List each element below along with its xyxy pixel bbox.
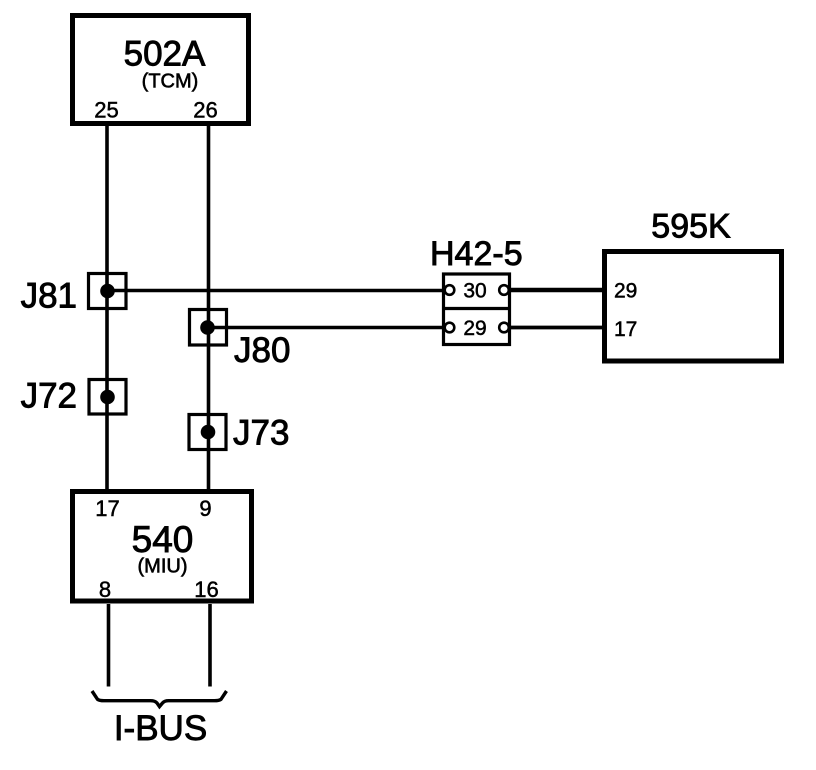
connector 502A (TCM) — [73, 16, 249, 124]
svg-text:29: 29 — [463, 317, 486, 340]
svg-text:502A: 502A — [124, 35, 206, 74]
svg-text:29: 29 — [614, 280, 637, 303]
svg-text:J72: J72 — [21, 377, 77, 416]
connector H42-5 — [442, 274, 511, 345]
wire H42-5 pin29 to 595K pin17 — [509, 326, 603, 330]
splice J80 — [190, 310, 227, 346]
connector 540 (MIU) — [73, 492, 252, 602]
svg-text:540: 540 — [132, 519, 194, 560]
svg-text:9: 9 — [199, 496, 211, 521]
splice J72 — [89, 380, 126, 415]
svg-text:16: 16 — [194, 577, 218, 602]
svg-text:J73: J73 — [233, 414, 289, 453]
svg-text:I-BUS: I-BUS — [114, 709, 207, 748]
wire splice J80 to H42-5 pin29 — [208, 326, 447, 330]
svg-text:30: 30 — [463, 280, 486, 303]
wire 540 pin16 to I-BUS — [208, 604, 212, 687]
svg-text:(TCM): (TCM) — [142, 71, 199, 93]
connector 595K — [605, 252, 782, 362]
svg-text:17: 17 — [614, 318, 637, 341]
brace I-BUS — [92, 691, 227, 707]
svg-text:J81: J81 — [21, 277, 77, 316]
svg-text:25: 25 — [94, 98, 118, 123]
wire 502A pin26 to 540 pin9 — [207, 124, 211, 492]
wire H42-5 pin30 to 595K pin29 — [509, 288, 603, 292]
svg-text:(MIU): (MIU) — [138, 556, 188, 578]
svg-text:26: 26 — [193, 98, 217, 123]
svg-text:8: 8 — [99, 577, 111, 602]
wire 540 pin8 to I-BUS — [107, 604, 111, 687]
splice J73 — [189, 415, 226, 450]
svg-text:17: 17 — [95, 496, 119, 521]
svg-text:H42-5: H42-5 — [430, 235, 523, 273]
svg-text:J80: J80 — [234, 331, 290, 370]
splice J81 — [89, 274, 127, 309]
svg-text:595K: 595K — [651, 208, 731, 246]
wire 502A pin25 to 540 pin17 — [105, 124, 109, 492]
wire splice J81 to H42-5 pin30 — [108, 289, 447, 293]
